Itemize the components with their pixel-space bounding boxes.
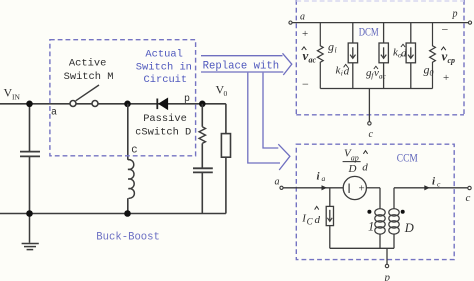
wire a to source: [283, 187, 343, 189]
node junction dot inductor bottom: [124, 210, 131, 217]
transformer secondary coil: [389, 209, 399, 234]
wire I_C branch upper: [329, 188, 331, 207]
current source g_f v_ac: [379, 23, 388, 89]
terminal c CCM: [468, 186, 471, 189]
svg-text:cp: cp: [448, 56, 456, 65]
inductor L coil: [128, 160, 135, 199]
wire DCM bottom rail: [320, 88, 432, 90]
svg-text:d: d: [401, 47, 407, 59]
wire cap to bottom rail: [201, 172, 203, 213]
arrow bent to CCM: [248, 73, 290, 170]
svg-text:IN: IN: [12, 93, 20, 102]
capacitor C_in plates: [20, 152, 40, 157]
svg-text:d: d: [344, 65, 350, 77]
transformer dot primary: [367, 210, 371, 214]
switch M circles: [70, 101, 98, 107]
resistor g_i branch: [317, 23, 323, 89]
current source k_i d: [348, 23, 357, 89]
svg-text:Actual: Actual: [145, 48, 182, 60]
svg-text:c: c: [131, 144, 137, 156]
svg-text:D: D: [348, 163, 357, 175]
svg-text:D: D: [404, 221, 414, 235]
svg-text:d: d: [315, 214, 321, 226]
svg-text:a: a: [51, 108, 57, 119]
svg-text:p: p: [384, 272, 391, 281]
wire source to transformer primary: [366, 187, 380, 189]
svg-text:Circuit: Circuit: [144, 74, 188, 86]
resistor load box: [221, 134, 230, 158]
ground: [22, 244, 39, 250]
transformer primary coil: [375, 209, 385, 234]
svg-text:a: a: [322, 174, 326, 183]
svg-text:0: 0: [224, 89, 228, 98]
dashed box CCM: [296, 144, 454, 259]
svg-text:+: +: [359, 183, 365, 195]
svg-text:Replace with: Replace with: [203, 61, 280, 73]
svg-text:i: i: [335, 46, 337, 55]
svg-text:a: a: [275, 177, 280, 188]
wire V0 corner down to load resistor: [225, 104, 227, 134]
wire secondary to c: [394, 187, 468, 189]
svg-text:p: p: [452, 9, 458, 20]
svg-text:+: +: [302, 28, 308, 40]
svg-text:+: +: [443, 72, 449, 84]
svg-text:Switch D: Switch D: [141, 126, 191, 138]
wire inductor upper: [127, 104, 129, 160]
svg-text:CCM: CCM: [397, 150, 418, 164]
svg-text:Active: Active: [69, 58, 106, 70]
voltage source V_ap/D d: [343, 176, 366, 199]
svg-text:i: i: [317, 171, 321, 183]
svg-text:g: g: [328, 40, 334, 54]
svg-text:Switch in: Switch in: [136, 61, 192, 73]
transformer secondary wire to bottom: [393, 234, 395, 248]
arrow i_c: [424, 185, 430, 190]
node junction dot bottom left: [26, 210, 33, 217]
terminal a CCM: [280, 186, 283, 189]
wire ESR to cap: [201, 143, 203, 168]
node junction dot c top: [124, 101, 131, 108]
current source k_o d: [406, 23, 415, 89]
terminal p DCM: [468, 21, 471, 24]
resistor g_0 branch: [430, 23, 436, 89]
dashed box DCM: [296, 0, 464, 115]
diode D triangle: [159, 98, 168, 109]
svg-text:p: p: [184, 94, 190, 105]
svg-text:0: 0: [430, 69, 434, 78]
wire load to bottom rail: [225, 157, 227, 213]
svg-text:−: −: [302, 77, 309, 91]
svg-text:Buck-Boost: Buck-Boost: [96, 231, 160, 243]
svg-text:C: C: [307, 217, 314, 227]
wire top rail from Vin to V0 corner: [0, 103, 226, 105]
wire DCM top rail: [292, 22, 468, 24]
terminal a DCM: [289, 21, 292, 24]
transformer dot secondary: [401, 210, 405, 214]
svg-text:−: −: [442, 23, 449, 37]
wire ground stub: [29, 214, 31, 243]
wire input cap branch lower: [29, 156, 31, 213]
wire I_C branch lower: [329, 226, 331, 249]
node V0 junction dot: [199, 101, 206, 108]
svg-text:i: i: [432, 176, 436, 188]
terminal c DCM: [368, 122, 371, 125]
wire bottom rail: [0, 213, 226, 215]
svg-text:DCM: DCM: [359, 25, 379, 39]
svg-text:ac: ac: [309, 56, 317, 65]
terminal p CCM: [385, 264, 388, 267]
svg-text:ac: ac: [379, 73, 387, 81]
svg-text:i: i: [341, 69, 343, 78]
svg-text:1: 1: [368, 220, 374, 234]
wire to p terminal: [386, 248, 388, 264]
switch M lever: [76, 85, 99, 101]
arrow replace-with banner: [201, 53, 292, 75]
wire DCM to node c: [368, 89, 370, 122]
wire CCM bottom: [330, 247, 394, 249]
svg-text:c: c: [437, 180, 441, 189]
svg-text:d: d: [362, 162, 368, 174]
transformer secondary wire up: [393, 188, 395, 209]
resistor ESR zigzag: [199, 127, 205, 144]
diode D cathode bar: [156, 99, 158, 110]
svg-text:Switch M: Switch M: [64, 71, 114, 83]
node junction dot Vin rail: [26, 101, 33, 108]
svg-text:c: c: [466, 192, 471, 204]
svg-text:c: c: [369, 129, 374, 140]
svg-text:a: a: [300, 12, 305, 23]
svg-text:Passive: Passive: [143, 113, 187, 125]
wire inductor lower: [127, 198, 129, 213]
current source I_C d: [326, 206, 333, 225]
wire ESR branch upper: [201, 104, 203, 127]
transformer primary wire down: [379, 188, 381, 209]
transformer primary wire to bottom: [379, 234, 381, 248]
capacitor C_out plates: [193, 168, 213, 172]
arrow i_a: [322, 185, 328, 190]
dashed box actual switch: [50, 40, 196, 156]
wire input cap branch upper: [29, 104, 31, 152]
